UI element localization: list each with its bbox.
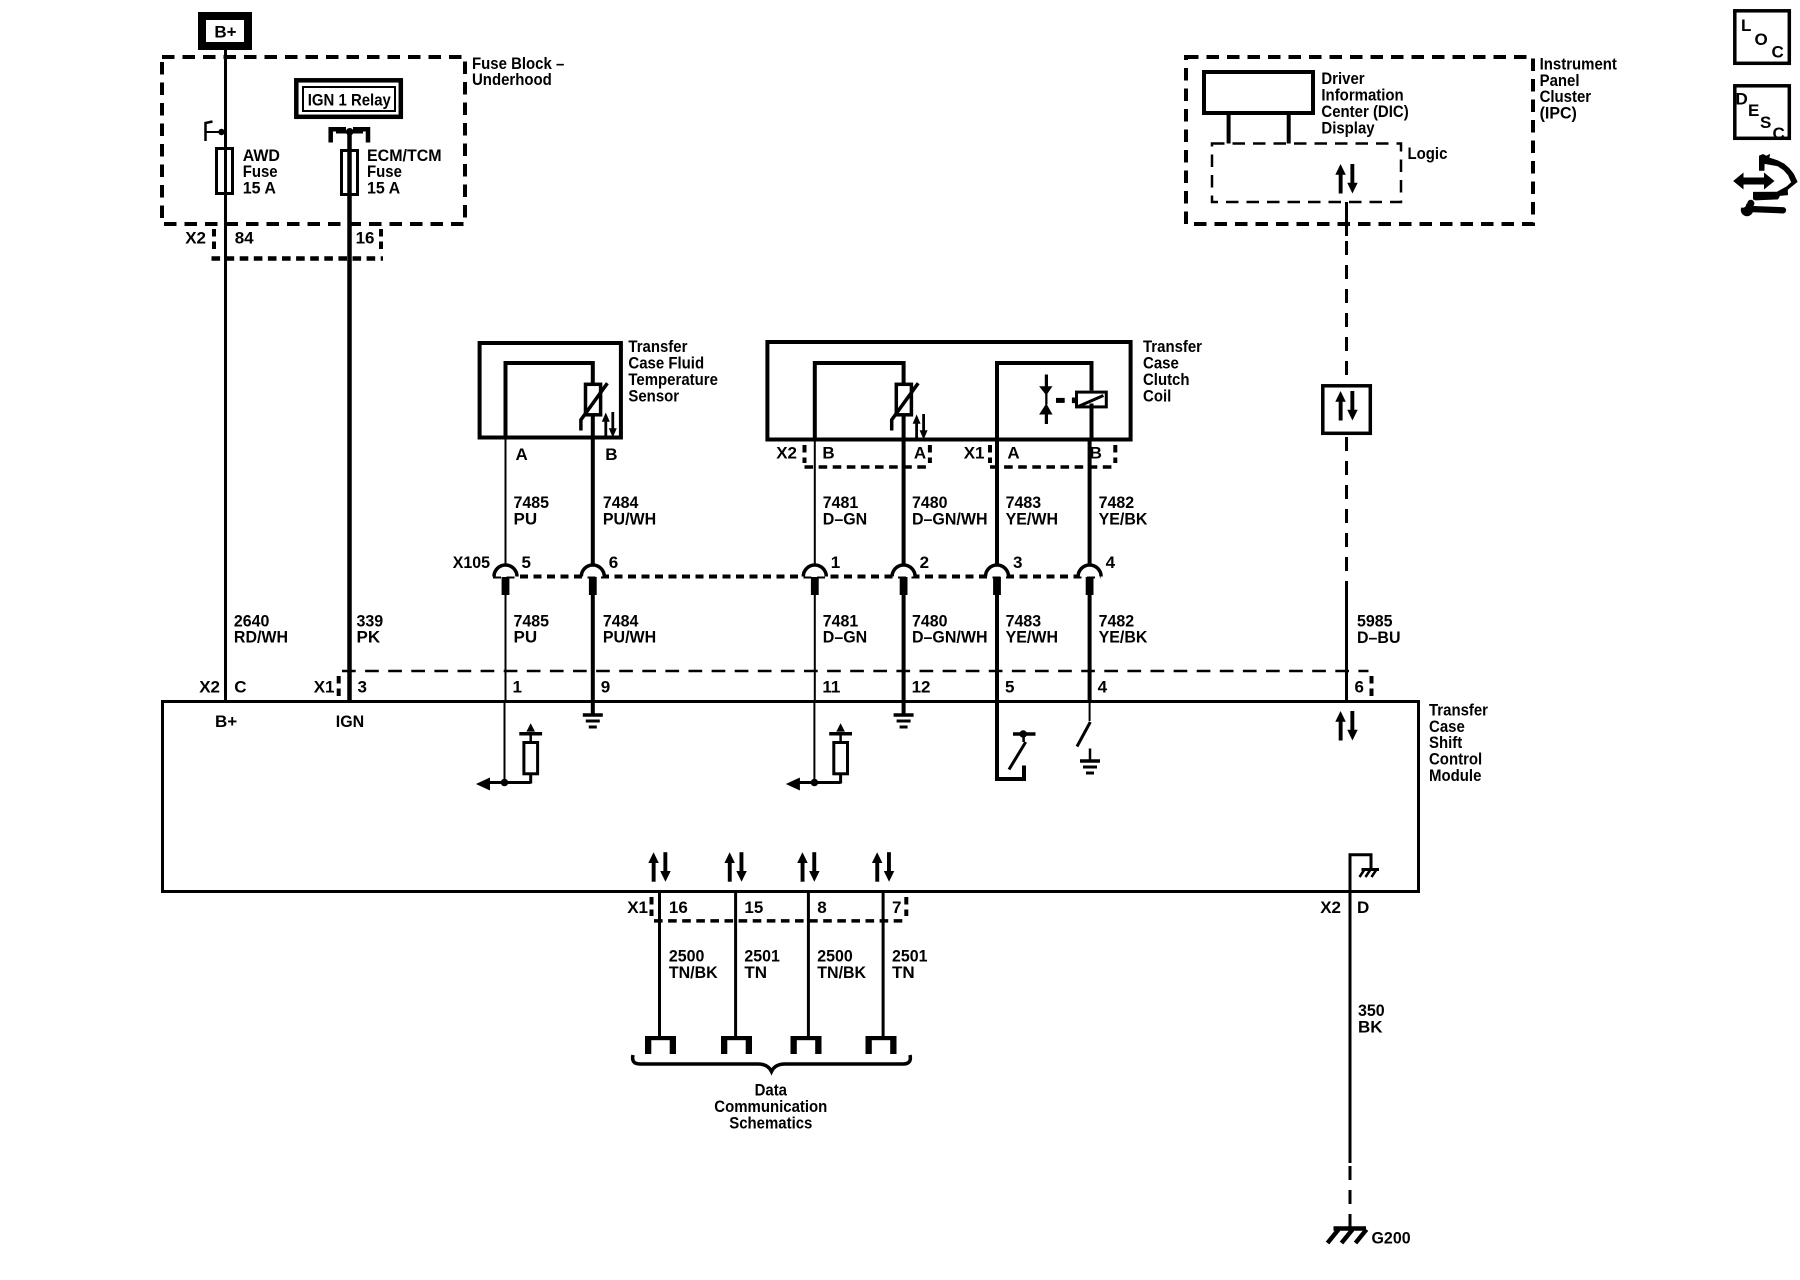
internal pull-up and output arrow at pin 1 bbox=[476, 701, 542, 791]
IPC label bbox=[1540, 54, 1618, 122]
LOC reference box bbox=[1735, 11, 1790, 64]
off-page connector at wire 16 bbox=[645, 1036, 676, 1054]
off-page connector at wire 8 bbox=[791, 1036, 822, 1054]
serial data arrows at module pin 15 bbox=[724, 852, 746, 882]
svg-text:L: L bbox=[1741, 16, 1751, 35]
svg-text:YE/BK: YE/BK bbox=[1099, 628, 1149, 647]
clutch actuator arrows symbol bbox=[1039, 375, 1065, 425]
module bottom connector X2 pin D bbox=[1320, 898, 1369, 917]
internal low-side driver switch to ground at pin 4 bbox=[1077, 701, 1100, 773]
wire 7483 YE/WH from X105 to module pin 5 bbox=[997, 595, 1058, 701]
svg-text:B: B bbox=[822, 443, 834, 462]
X105 terminal pin 5 bbox=[494, 565, 517, 595]
DESC reference box bbox=[1735, 86, 1790, 143]
svg-text:8: 8 bbox=[817, 898, 826, 917]
DIC label bbox=[1321, 69, 1408, 137]
wire 7481 D-GN from X105 to module pin 11 bbox=[815, 595, 867, 701]
thermistor RT2 (clutch) bbox=[892, 383, 919, 430]
svg-text:Underhood: Underhood bbox=[472, 70, 552, 89]
fuse F1 AWD 15A bbox=[217, 146, 281, 198]
svg-text:IGN: IGN bbox=[336, 712, 364, 731]
svg-text:D–GN/WH: D–GN/WH bbox=[912, 509, 988, 528]
svg-text:(IPC): (IPC) bbox=[1540, 104, 1577, 123]
svg-text:A: A bbox=[1007, 443, 1019, 462]
svg-text:A: A bbox=[516, 445, 528, 464]
wire 2501 TN serial data pin 7 bbox=[883, 892, 927, 1038]
X105 pin numbers bbox=[522, 553, 1116, 572]
svg-text:G200: G200 bbox=[1372, 1229, 1411, 1248]
svg-text:12: 12 bbox=[912, 677, 931, 696]
serial data arrows at module pin 7 bbox=[872, 852, 894, 882]
svg-text:X2: X2 bbox=[776, 443, 797, 462]
fuse block underhood dashed box bbox=[162, 57, 465, 224]
svg-text:C: C bbox=[1772, 43, 1784, 62]
X105 terminal pin 2 bbox=[892, 565, 915, 595]
X105 terminal pin 4 bbox=[1078, 565, 1101, 595]
wire inside sensor from thermistor down bbox=[591, 414, 595, 438]
wire from logic to serial data box, 5985 D-BU bbox=[1345, 202, 1348, 384]
svg-text:PK: PK bbox=[357, 628, 381, 647]
svg-text:Logic: Logic bbox=[1408, 144, 1448, 163]
relay output terminal brackets bbox=[331, 128, 368, 143]
serial data arrows at module pin 16 bbox=[648, 852, 670, 882]
svg-text:RD/WH: RD/WH bbox=[234, 628, 288, 647]
instrument panel cluster dashed box bbox=[1186, 57, 1533, 224]
module connector dashed line across pins bbox=[342, 670, 1369, 673]
svg-text:X2: X2 bbox=[1320, 898, 1341, 917]
wire 7482 YE/BK to X105 pin 4 bbox=[1090, 438, 1149, 566]
svg-text:Display: Display bbox=[1321, 118, 1375, 137]
svg-text:5: 5 bbox=[1005, 677, 1014, 696]
wire 2500 TN/BK serial data pin 8 bbox=[808, 892, 866, 1038]
svg-text:B: B bbox=[605, 445, 617, 464]
transfer case clutch coil outer box bbox=[767, 342, 1130, 440]
svg-text:15 A: 15 A bbox=[243, 179, 276, 198]
svg-text:1: 1 bbox=[513, 677, 522, 696]
connector X1 dashes at module pin 3 bbox=[337, 676, 341, 697]
svg-text:O: O bbox=[1755, 30, 1768, 49]
internal ground hook at pin D bbox=[1350, 855, 1379, 890]
svg-text:D–GN: D–GN bbox=[823, 628, 867, 647]
svg-text:D: D bbox=[1357, 898, 1369, 917]
relay K1 IGN 1 Relay name box bbox=[296, 80, 401, 117]
wire 7481 D-GN to X105 pin 1 bbox=[815, 440, 867, 566]
connector dashes at module pin 6 bbox=[1370, 676, 1374, 697]
svg-text:5: 5 bbox=[522, 553, 531, 572]
svg-text:PU/WH: PU/WH bbox=[603, 628, 656, 647]
svg-text:B+: B+ bbox=[214, 22, 236, 41]
transfer case fluid temperature sensor outer box bbox=[480, 343, 621, 438]
connector X1 of clutch assembly, pins A and B bbox=[964, 443, 1116, 467]
internal pull-up and output arrow at pin 11 bbox=[786, 701, 852, 791]
svg-text:C: C bbox=[1773, 124, 1785, 143]
wire IGN feed from relay to module pin 3 bbox=[347, 132, 352, 701]
svg-text:3: 3 bbox=[358, 677, 367, 696]
DIC display legs bbox=[1227, 113, 1231, 144]
label Fuse Block Underhood bbox=[472, 54, 564, 89]
svg-text:Sensor: Sensor bbox=[628, 386, 679, 405]
svg-text:15 A: 15 A bbox=[367, 179, 400, 198]
DIC display box bbox=[1204, 72, 1313, 113]
fuse F2 ECM/TCM 15A bbox=[342, 146, 442, 198]
svg-text:PU: PU bbox=[514, 509, 538, 528]
svg-text:TN/BK: TN/BK bbox=[817, 963, 866, 982]
clutch coil inner box bbox=[997, 363, 1092, 438]
off-page connector at wire 7 bbox=[866, 1036, 897, 1054]
wire through coil down bbox=[1090, 404, 1094, 438]
X105 terminal pin 3 bbox=[986, 565, 1009, 595]
svg-text:15: 15 bbox=[744, 898, 763, 917]
sensor inner element box bbox=[506, 363, 593, 438]
svg-text:X1: X1 bbox=[627, 898, 648, 917]
internal ground at pin 12 bbox=[894, 701, 914, 727]
svg-text:S: S bbox=[1760, 113, 1771, 132]
X105 terminal pin 6 bbox=[581, 565, 604, 595]
svg-text:B+: B+ bbox=[215, 712, 237, 731]
svg-text:4: 4 bbox=[1106, 553, 1116, 572]
module bottom connector X1 pins 16 15 8 7 bbox=[627, 897, 906, 921]
clutch coil label bbox=[1143, 337, 1202, 405]
second temperature sensing element inner box bbox=[815, 363, 904, 438]
svg-text:IGN 1 Relay: IGN 1 Relay bbox=[308, 90, 392, 109]
wire inside from thermistor down bbox=[902, 414, 906, 438]
svg-text:16: 16 bbox=[669, 898, 688, 917]
terminal hook on B+ wire bbox=[206, 122, 226, 142]
signal direction arrows in sensor bbox=[602, 412, 617, 438]
svg-text:PU: PU bbox=[514, 628, 538, 647]
wire 7482 YE/BK from X105 to module pin 4 bbox=[1090, 595, 1149, 701]
svg-text:16: 16 bbox=[356, 229, 375, 248]
wire 7483 YE/WH to X105 pin 3 bbox=[997, 438, 1058, 566]
svg-text:2: 2 bbox=[920, 553, 929, 572]
brace grouping data wires bbox=[633, 1055, 911, 1072]
internal ground at pin 9 bbox=[583, 701, 603, 727]
svg-text:6: 6 bbox=[609, 553, 618, 572]
svg-text:D–GN/WH: D–GN/WH bbox=[912, 628, 988, 647]
logic dashed box bbox=[1212, 144, 1401, 203]
wire 7480 D-GN/WH to X105 pin 2 bbox=[904, 438, 988, 566]
wire 350 BK ground wire bbox=[1350, 892, 1385, 1229]
wire label 339 PK bbox=[357, 611, 384, 646]
schematic navigation icon (arrows and wrench) bbox=[1733, 154, 1797, 216]
wire 7484 PU/WH from sensor B to X105 pin 6 bbox=[593, 438, 656, 566]
svg-text:Schematics: Schematics bbox=[729, 1114, 812, 1133]
svg-text:X105: X105 bbox=[453, 553, 490, 572]
svg-text:A: A bbox=[914, 443, 926, 462]
serial data arrows at module pin 6 bbox=[1335, 711, 1357, 741]
svg-text:C: C bbox=[234, 677, 246, 696]
wire label 2640 RD/WH bbox=[234, 611, 288, 646]
node B+ power terminal box bbox=[202, 16, 248, 46]
svg-text:6: 6 bbox=[1355, 677, 1364, 696]
svg-text:PU/WH: PU/WH bbox=[603, 509, 656, 528]
X105 terminal pin 1 bbox=[803, 565, 826, 595]
coil winding L1 rectangle with slash bbox=[1072, 392, 1106, 407]
svg-text:X2: X2 bbox=[199, 677, 220, 696]
svg-text:TN: TN bbox=[744, 963, 767, 982]
thermistor RT1 (fluid temperature) bbox=[581, 383, 608, 430]
wire 7480 D-GN/WH from X105 to module pin 12 bbox=[904, 595, 988, 701]
transfer case shift control module box bbox=[163, 702, 1419, 892]
svg-text:Coil: Coil bbox=[1143, 386, 1171, 405]
svg-text:9: 9 bbox=[601, 677, 610, 696]
wire 5985 D-BU from interface box to module pin 6 bbox=[1347, 437, 1401, 701]
signal direction arrows bbox=[913, 414, 928, 440]
svg-text:YE/WH: YE/WH bbox=[1006, 628, 1058, 647]
module pin labels row bbox=[199, 677, 1364, 696]
svg-text:D: D bbox=[1736, 90, 1748, 109]
serial data interface box bbox=[1323, 386, 1371, 434]
svg-text:YE/WH: YE/WH bbox=[1006, 509, 1058, 528]
svg-text:D–BU: D–BU bbox=[1357, 628, 1401, 647]
svg-text:4: 4 bbox=[1098, 677, 1108, 696]
wire 7485 PU from sensor A to X105 pin 5 bbox=[506, 440, 550, 566]
off-page connector at wire 15 bbox=[721, 1036, 752, 1054]
wire 2501 TN serial data pin 15 bbox=[736, 892, 780, 1038]
module label bbox=[1429, 700, 1488, 785]
wire 7485 PU from X105 to module pin 1 bbox=[506, 595, 550, 701]
serial data arrows at module pin 8 bbox=[797, 852, 819, 882]
wire 7484 PU/WH from X105 to module pin 9 bbox=[593, 595, 656, 701]
svg-text:BK: BK bbox=[1358, 1017, 1383, 1036]
svg-text:X2: X2 bbox=[185, 229, 206, 248]
serial data arrows in logic box bbox=[1335, 164, 1357, 194]
svg-text:11: 11 bbox=[822, 677, 840, 696]
ground G200 chassis symbol bbox=[1328, 1229, 1367, 1244]
svg-text:D–GN: D–GN bbox=[823, 509, 867, 528]
inline connector X105 dashed bus bbox=[493, 575, 1101, 579]
svg-text:TN: TN bbox=[892, 963, 915, 982]
svg-text:84: 84 bbox=[235, 229, 254, 248]
wire B+ feed from B+ box to module pin C bbox=[224, 48, 227, 701]
svg-text:Module: Module bbox=[1429, 766, 1481, 785]
label Data Communication Schematics bbox=[714, 1081, 827, 1133]
svg-text:7: 7 bbox=[892, 898, 901, 917]
sensor label bbox=[628, 337, 718, 405]
svg-text:E: E bbox=[1748, 101, 1759, 120]
serial data arrows in interface box bbox=[1335, 391, 1357, 421]
svg-text:TN/BK: TN/BK bbox=[669, 963, 718, 982]
svg-text:YE/BK: YE/BK bbox=[1099, 509, 1149, 528]
wire 2500 TN/BK serial data pin 16 bbox=[660, 892, 719, 1038]
connector X2 of clutch assembly, pins B and A bbox=[776, 443, 930, 467]
svg-text:1: 1 bbox=[831, 553, 840, 572]
svg-text:X1: X1 bbox=[314, 677, 335, 696]
svg-text:X1: X1 bbox=[964, 443, 985, 462]
svg-text:3: 3 bbox=[1013, 553, 1022, 572]
connector X2 of fuse block, pins 84 and 16 bbox=[185, 229, 383, 259]
internal high-side driver switch at pin 5 bbox=[997, 701, 1036, 779]
